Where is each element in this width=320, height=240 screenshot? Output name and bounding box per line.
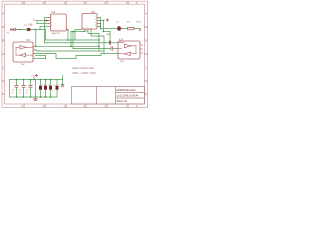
svg-text:MAX232: MAX232: [52, 32, 61, 35]
ground symbol: [33, 99, 38, 100]
connector X1: [10, 28, 17, 30]
svg-text:8: 8: [62, 29, 63, 31]
wire GND rail bottom y97: [10, 96, 58, 98]
wire IC1 left pin3 y23.5: [37, 23, 49, 25]
wire VCC rail top y79.5: [10, 79, 63, 81]
capacitor C1: [15, 85, 18, 87]
svg-text:IC1: IC1: [52, 10, 57, 14]
frame bottom ticks: [24, 104, 128, 108]
resistor R1 on input wire: [25, 20, 38, 31]
svg-text:6: 6: [56, 29, 57, 31]
svg-text:3: 3: [51, 22, 52, 24]
capacitor C5 polarized: [44, 86, 47, 90]
IC1: [46, 10, 68, 35]
svg-text:2: 2: [34, 49, 35, 51]
buffer pin numbers: [34, 49, 35, 55]
svg-text:GND: GND: [106, 34, 111, 36]
wire buffer2 in2 y48.5: [73, 48, 110, 50]
wire cap verticals: [16, 80, 18, 98]
svg-text:A: A: [2, 12, 4, 16]
internal connections: [16, 47, 33, 55]
wire staple y55.5: [36, 55, 46, 57]
frame top ticks: [24, 1, 128, 4]
capacitor C6 polarized: [49, 86, 52, 90]
svg-text:1n: 1n: [19, 93, 21, 95]
buffer box IC4 right: [118, 38, 143, 62]
wire vertical x110: [109, 32, 111, 43]
vcc symbol: [31, 74, 37, 77]
wire vertical x40: [39, 27, 41, 30]
wire gnd stub: [35, 97, 37, 99]
frame column numbers: [22, 2, 139, 108]
svg-text:B: B: [145, 39, 147, 43]
svg-text:C: C: [145, 66, 147, 70]
wire IC1 left pin2 y20.5: [37, 20, 49, 22]
triangle buffer bottom: [21, 53, 26, 57]
resistor R2 on right wire: [127, 22, 134, 30]
wire channel y46.3: [33, 45, 99, 47]
wire IC2 bottom pin3: [91, 29, 104, 54]
svg-text:C7: C7: [59, 84, 61, 86]
internal connections: [118, 43, 136, 54]
wire main right y28.5: [101, 28, 140, 30]
svg-text:RXD: RXD: [137, 22, 142, 24]
svg-text:IC3: IC3: [27, 39, 31, 42]
frame row letters: [2, 12, 147, 97]
svg-text:TXD: TXD: [33, 20, 38, 22]
svg-text:5: 5: [53, 29, 54, 31]
svg-text:4: 4: [95, 19, 96, 21]
capacitor C7 polarized: [56, 86, 59, 90]
svg-text:2: 2: [95, 16, 96, 18]
wire step x76 up: [75, 56, 77, 59]
buffer pins right: [140, 45, 143, 53]
IC2 left pin: [80, 29, 82, 31]
buffer pins right: [33, 46, 34, 57]
wire IC2 right pins stubs: [99, 18, 104, 27]
svg-text:VCC: VCC: [31, 75, 36, 77]
svg-text:2: 2: [51, 19, 52, 21]
wire staple right vertical: [45, 56, 47, 59]
coupling cap into IC4 in2: [111, 47, 112, 50]
wire buffer1 pin y50 stub: [33, 50, 37, 51]
wire IC1 left pin1 y17.5: [45, 17, 49, 19]
svg-text:D: D: [2, 92, 4, 96]
svg-text:C6: C6: [53, 84, 55, 86]
note text: [72, 67, 97, 75]
svg-text:7407: 7407: [21, 64, 27, 66]
wire y53.5 into buffer2: [101, 53, 118, 55]
svg-text:1: 1: [51, 16, 52, 18]
wire step x56: [55, 54, 57, 59]
svg-text:3: 3: [86, 27, 87, 29]
diode D1 on right wire: [116, 21, 121, 30]
wire buffer2 in1 right of cap: [112, 42, 119, 44]
svg-text:IC2: IC2: [91, 10, 96, 14]
wire vertical x75 IC2 left pin: [75, 30, 80, 41]
wire vertical x68 IC1 right pin: [67, 30, 69, 41]
svg-text:VCC: VCC: [102, 20, 107, 22]
svg-text:EPROM-Emulator: EPROM-Emulator: [117, 89, 136, 92]
IC1 left pins: [49, 18, 51, 27]
svg-text:5: 5: [89, 27, 90, 29]
capacitor C3: [29, 85, 32, 87]
wire y31.5 right short: [104, 31, 111, 33]
svg-text:4: 4: [34, 52, 35, 54]
wire vcc stub: [33, 77, 35, 80]
svg-text:C: C: [2, 66, 4, 70]
wire channel y51: [37, 50, 105, 52]
svg-text:7407: 7407: [120, 61, 126, 63]
wire buffer1 out y53.5: [33, 53, 56, 55]
svg-text:8: 8: [95, 25, 96, 27]
gnd cross mid: [61, 84, 63, 86]
coupling cap into IC4 in1: [109, 41, 110, 44]
svg-text:C3: C3: [26, 89, 28, 91]
svg-text:1n: 1n: [12, 93, 14, 95]
svg-text:Sheet: 1/1: Sheet: 1/1: [117, 100, 129, 103]
wire IC1 left pin4 y26.5: [40, 26, 49, 28]
svg-text:1: 1: [83, 27, 84, 29]
capacitor C4 polarized: [39, 86, 42, 90]
wire vertical x73: [72, 32, 74, 49]
triangle buffer bottom: [125, 52, 130, 56]
svg-text:A: A: [145, 12, 147, 16]
wire bridge y58.5: [56, 58, 76, 60]
wire loop y40: [46, 39, 100, 41]
svg-text:IC4: IC4: [119, 38, 123, 41]
svg-text:RXD: RXD: [28, 24, 33, 26]
triangle buffer top: [125, 44, 130, 48]
IC1 right pin: [66, 29, 68, 31]
wire vcc riser x62.5: [62, 76, 64, 86]
frame left ticks: [2, 27, 5, 81]
svg-text:CFR1 + CFR2 = 50%: CFR1 + CFR2 = 50%: [72, 72, 97, 75]
svg-text:7: 7: [59, 29, 60, 31]
wire staple y58.5: [34, 58, 46, 60]
IC1 pin numbers: [51, 16, 65, 31]
output pin right: [139, 28, 141, 31]
svg-text:B: B: [2, 39, 4, 43]
IC2 right pins: [97, 18, 99, 27]
svg-text:C1: C1: [12, 89, 14, 91]
svg-text:9: 9: [64, 28, 65, 30]
green wire net: [10, 18, 140, 100]
wire vertical bus x44.5: [44, 18, 46, 43]
wire input horizontal y29.5: [17, 29, 46, 31]
svg-text:11.05.1998 19:09:44: 11.05.1998 19:09:44: [117, 95, 139, 98]
wire channel y42.75: [45, 42, 109, 44]
svg-text:6: 6: [95, 22, 96, 24]
svg-text:1n: 1n: [26, 93, 28, 95]
frame right ticks: [145, 27, 148, 81]
svg-text:C2: C2: [19, 89, 21, 91]
IC2: [80, 10, 99, 33]
vcc arrow right: [102, 19, 109, 22]
wire IC2 bottom pin2: [88, 29, 99, 51]
buffer box IC3 left: [13, 39, 35, 66]
wire vertical x35.8 down to channel: [35, 30, 37, 47]
frame outer border: [2, 1, 148, 107]
wire IC2 bottom pin1: [71, 29, 85, 32]
svg-text:Adjust to Baud rate!: Adjust to Baud rate!: [72, 67, 94, 70]
wire y55.5 to right: [76, 55, 101, 57]
IC2 bottom pins: [85, 28, 91, 31]
svg-text:D: D: [145, 92, 147, 96]
frame inner border: [5, 4, 145, 104]
svg-text:4: 4: [51, 25, 52, 27]
wire step x101 up: [100, 54, 102, 56]
wire vertical x37: [36, 21, 38, 24]
title block: [72, 87, 145, 105]
junction dots: [16, 23, 122, 98]
triangle buffer top: [20, 45, 25, 49]
wire vertical x71: [70, 32, 72, 47]
capacitor C2: [22, 85, 25, 87]
wire IC2 right verticals: [101, 18, 104, 32]
svg-text:7404: 7404: [83, 31, 89, 33]
wire corner x45.5 down: [45, 30, 47, 41]
wire rail left vertical: [9, 80, 11, 98]
